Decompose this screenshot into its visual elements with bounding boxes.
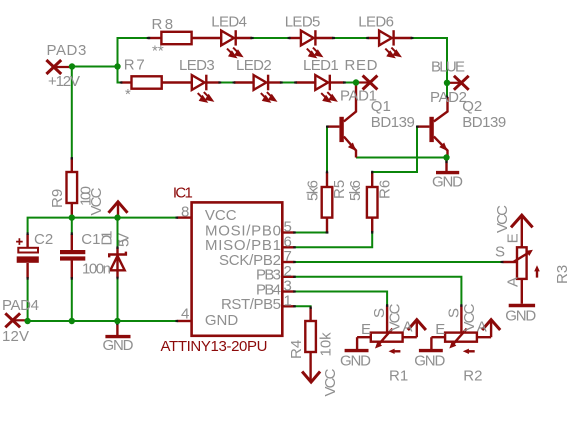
svg-text:PAD3: PAD3: [47, 42, 87, 59]
svg-text:ATTINY13-20PU: ATTINY13-20PU: [161, 338, 268, 355]
svg-text:PAD4: PAD4: [2, 297, 39, 314]
svg-text:E: E: [505, 233, 522, 243]
svg-text:LED4: LED4: [211, 14, 247, 31]
svg-text:LED5: LED5: [285, 14, 321, 31]
svg-text:5k6: 5k6: [305, 180, 322, 201]
svg-text:A: A: [505, 277, 522, 287]
svg-text:R2: R2: [463, 367, 482, 384]
svg-text:+12V: +12V: [48, 73, 80, 90]
svg-text:E: E: [435, 321, 445, 338]
svg-text:**: **: [152, 43, 164, 60]
svg-text:GND: GND: [505, 308, 536, 325]
svg-text:GND: GND: [103, 337, 134, 354]
svg-text:*: *: [125, 86, 131, 103]
svg-text:GND: GND: [432, 174, 463, 191]
svg-text:D1: D1: [99, 231, 116, 246]
svg-text:VCC: VCC: [205, 207, 237, 224]
svg-text:R8: R8: [152, 16, 174, 33]
svg-text:Q1: Q1: [371, 98, 391, 115]
svg-text:5k6: 5k6: [347, 180, 364, 201]
svg-text:RED: RED: [345, 57, 378, 74]
svg-text:GND: GND: [340, 353, 371, 370]
svg-text:A: A: [477, 319, 487, 336]
svg-text:C2: C2: [34, 231, 53, 248]
svg-text:LED2: LED2: [236, 57, 272, 74]
svg-text:S: S: [495, 244, 505, 261]
svg-text:R6: R6: [377, 180, 394, 199]
svg-text:R7: R7: [124, 57, 145, 74]
svg-text:VCC: VCC: [494, 205, 511, 233]
svg-text:8: 8: [181, 204, 189, 221]
svg-text:IC1: IC1: [173, 184, 193, 201]
svg-text:R9: R9: [49, 189, 66, 208]
svg-text:10k: 10k: [317, 332, 334, 357]
svg-text:1: 1: [284, 292, 292, 309]
svg-text:Q2: Q2: [462, 98, 482, 115]
svg-text:5V: 5V: [116, 233, 133, 247]
svg-text:LED3: LED3: [179, 57, 215, 74]
svg-text:VCC: VCC: [322, 368, 339, 396]
svg-text:12V: 12V: [2, 328, 29, 345]
svg-text:BD139: BD139: [462, 114, 506, 131]
svg-text:100n: 100n: [82, 261, 111, 278]
svg-text:R1: R1: [389, 367, 408, 384]
svg-text:VCC: VCC: [387, 303, 404, 331]
svg-text:BD139: BD139: [371, 114, 415, 131]
svg-text:GND: GND: [205, 312, 239, 329]
svg-text:R3: R3: [554, 265, 571, 284]
svg-text:S: S: [445, 308, 462, 318]
svg-text:E: E: [361, 321, 371, 338]
svg-text:LED1: LED1: [303, 57, 339, 74]
svg-text:BLUE: BLUE: [431, 59, 465, 76]
svg-text:VCC: VCC: [461, 303, 478, 331]
svg-text:4: 4: [181, 306, 189, 323]
svg-text:S: S: [371, 308, 388, 318]
svg-text:RST/PB5: RST/PB5: [221, 296, 281, 313]
svg-text:R4: R4: [288, 340, 305, 359]
svg-text:A: A: [403, 319, 413, 336]
svg-text:LED6: LED6: [358, 14, 394, 31]
svg-text:GND: GND: [414, 353, 445, 370]
svg-text:R5: R5: [331, 180, 348, 199]
svg-text:VCC: VCC: [88, 187, 105, 215]
